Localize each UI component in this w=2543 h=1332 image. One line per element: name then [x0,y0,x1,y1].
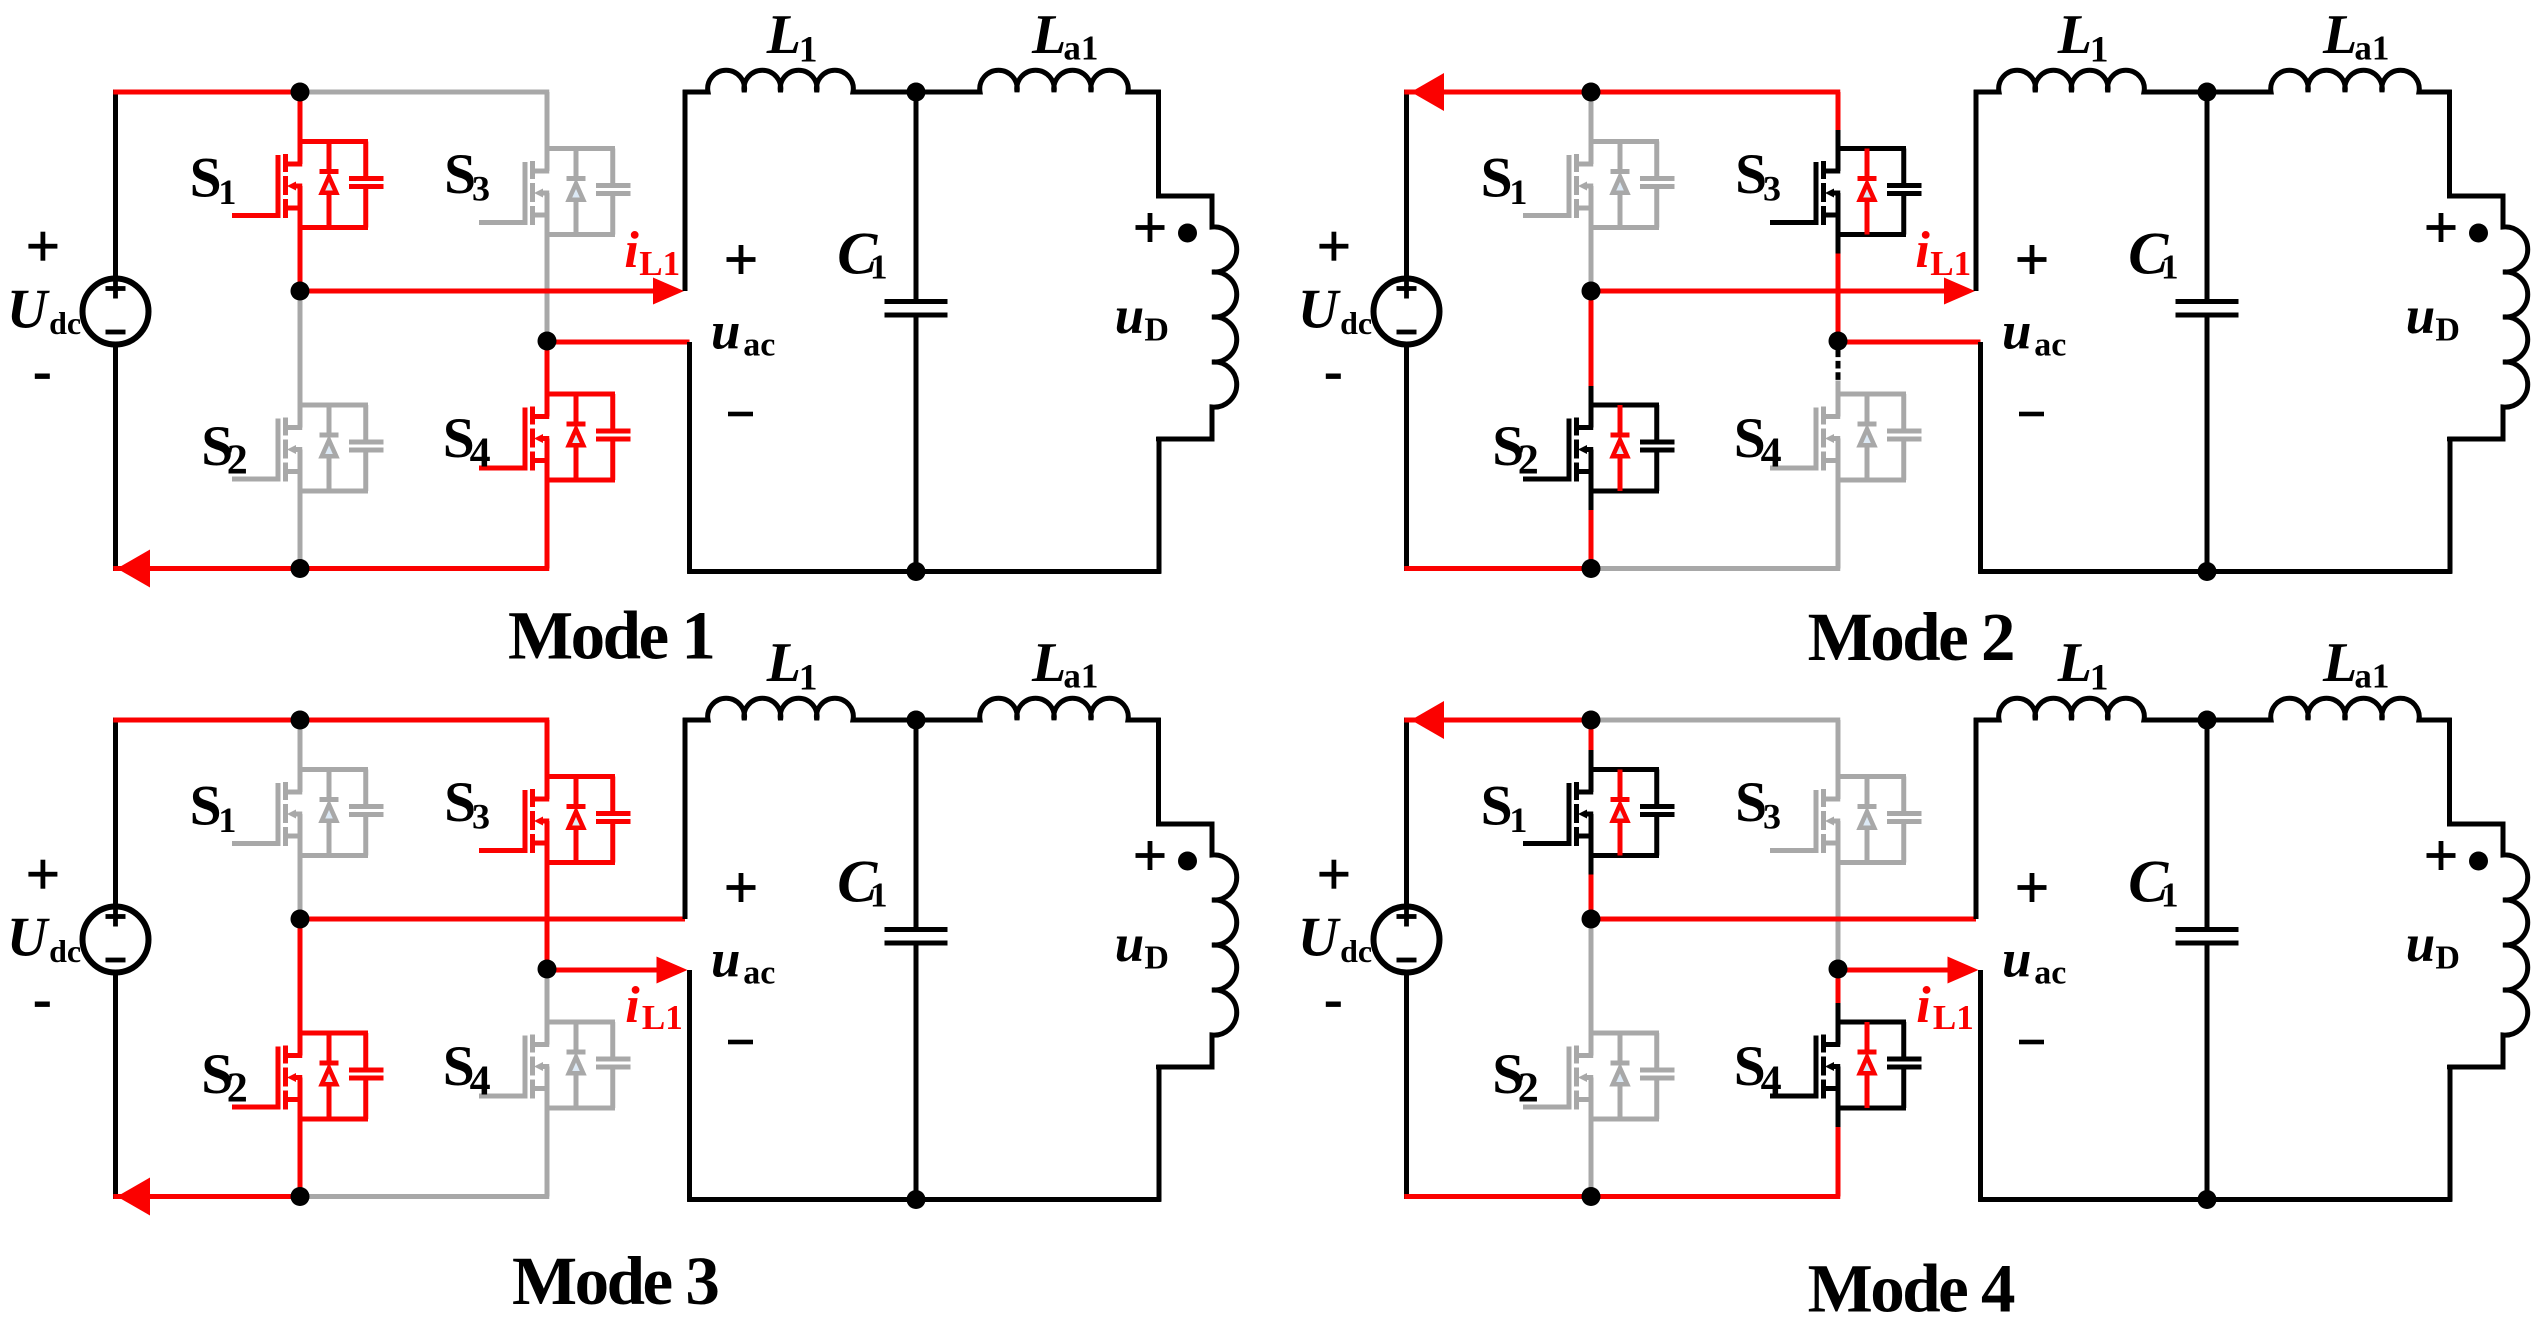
body diode of S2 (Mode 3) [320,1033,339,1119]
wire S2 source to bottom rail (Mode 2) [1589,491,1594,569]
label + of uac (Mode 3) [727,873,756,902]
inductor La1 (Mode 1) [916,70,1161,92]
svg-text:1: 1 [218,172,236,212]
voltage source Udc (Mode 1) [83,279,149,345]
voltage source Udc (Mode 3) [83,907,149,973]
svg-text:U: U [1298,906,1341,968]
svg-text:S: S [190,775,222,838]
wire top rail left segment (Mode 4) [1404,718,1593,723]
svg-text:i: i [1915,222,1930,279]
svg-text:2: 2 [227,1066,248,1112]
svg-text:2: 2 [1518,438,1539,484]
node filter top (Mode 3) [907,711,926,730]
wire S1 drain from top rail (Mode 2) [1589,92,1594,142]
svg-text:ac: ac [2034,955,2066,992]
wire output loop upper-left vertical (Mode 4) [1974,718,1979,919]
wire S3 drain from top rail (Mode 1) [545,92,550,149]
label - of uac (Mode 3) [728,1040,753,1045]
svg-text:3: 3 [472,797,490,837]
inductor L1 (Mode 1) [683,70,916,92]
node bridge midpoint (Mode 4) [1582,910,1601,929]
wire S2 source to bottom rail (Mode 3) [298,1119,303,1197]
label + of uac (Mode 4) [2018,873,2047,902]
label S3 (Mode 3) [444,771,490,837]
label L1 (Mode 1) [766,4,818,70]
label iL1 (Mode 2) [1915,222,1971,283]
wire right node to uac- terminal (Mode 1) [545,340,690,345]
label S2 (Mode 1) [201,415,248,484]
wire S3 source to right node (Mode 1) [545,235,550,342]
capacitor C1 (Mode 1) [885,92,948,572]
label + of Udc (Mode 2) [1319,232,1348,261]
label C1 (Mode 1) [837,220,887,286]
wire DC source top lead (Mode 3) [113,718,118,906]
label - of uac (Mode 2) [2019,412,2044,417]
svg-text:a1: a1 [2354,657,2389,696]
svg-text:L1: L1 [642,998,683,1037]
label + of uac (Mode 2) [2018,245,2047,274]
svg-text:L: L [1031,4,1066,66]
wire S3 source to right node (Mode 2) [1836,235,1841,342]
svg-text:u: u [711,930,740,988]
body diode of S4 (Mode 1) [567,394,586,480]
node right leg midpoint (Mode 4) [1829,960,1848,979]
label + of uac (Mode 1) [727,245,756,274]
label S4 (Mode 2) [1734,407,1782,476]
svg-text:L1: L1 [639,244,680,283]
label S3 (Mode 4) [1735,771,1781,837]
wire S1 source to midpoint node (Mode 1) [298,228,303,292]
winding uD (Mode 1) [1159,90,1237,574]
label uD (Mode 4) [2406,915,2460,977]
label S2 (Mode 2) [1492,415,1539,484]
wire right node to S4 drain (Mode 4) [1836,969,1841,1022]
wire midpoint to S2 drain (Mode 2) [1589,291,1594,405]
wire top rail left segment (Mode 1) [113,90,302,95]
label - of Udc (Mode 1) [35,374,50,379]
transistor S1 (Mode 2) [1523,142,1675,228]
node top rail / S1 drain (Mode 3) [291,711,310,730]
label L1 (Mode 2) [2057,4,2109,70]
label + of Udc (Mode 1) [28,232,57,261]
svg-text:U: U [1298,278,1341,340]
wire DC source bottom lead (Mode 1) [113,346,118,571]
body diode of S2 (Mode 2) [1611,405,1630,491]
wire S2 source to bottom rail (Mode 1) [298,491,303,569]
node bridge midpoint (Mode 3) [291,910,310,929]
return current arrow into source negative (Mode 3) [117,1178,150,1216]
wire output loop lower-left vertical (Mode 4) [1978,970,1983,1202]
svg-text:2: 2 [1518,1066,1539,1112]
transistor S3 (Mode 4) [1770,777,1922,863]
body diode of S3 (Mode 4) [1858,777,1877,863]
polarity dot of winding (Mode 4) [2469,852,2488,871]
svg-text:1: 1 [799,29,818,70]
label La1 (Mode 1) [1031,4,1098,68]
label C1 (Mode 3) [837,848,887,914]
wire S2 source to bottom rail (Mode 4) [1589,1119,1594,1197]
voltage source Udc (Mode 2) [1374,279,1440,345]
wire bottom rail left segment (Mode 4) [1404,1194,1593,1199]
svg-text:u: u [1115,915,1144,973]
label - of uac (Mode 1) [728,412,753,417]
current arrow iL1 (Mode 3) [657,957,688,984]
node top rail / S1 drain (Mode 1) [291,83,310,102]
svg-text:D: D [1144,940,1169,977]
wire S3 drain from top rail (Mode 4) [1836,720,1841,777]
wire DC source bottom lead (Mode 3) [113,974,118,1199]
label S4 (Mode 3) [443,1035,491,1104]
wire DC source top lead (Mode 1) [113,90,118,278]
svg-text:3: 3 [1763,169,1781,209]
node filter top (Mode 1) [907,83,926,102]
body diode of S1 (Mode 1) [320,142,339,228]
caption Mode 3 [512,1243,718,1319]
body diode of S2 (Mode 4) [1611,1033,1630,1119]
voltage source Udc (Mode 4) [1374,907,1440,973]
wire output loop lower-left vertical (Mode 1) [687,342,692,574]
node filter bottom (Mode 3) [907,1190,926,1209]
wire top rail right segment (Mode 1) [298,90,550,95]
label uD (Mode 1) [1115,287,1169,349]
svg-text:L: L [2057,632,2092,694]
wire output loop upper-left vertical (Mode 2) [1974,90,1979,291]
svg-text:L1: L1 [1933,998,1974,1037]
label uD (Mode 2) [2406,287,2460,349]
inductor La1 (Mode 4) [2207,698,2452,720]
node bottom rail / S2 source (Mode 2) [1582,559,1601,578]
svg-text:L: L [2057,4,2092,66]
label La1 (Mode 4) [2322,632,2389,696]
winding uD (Mode 2) [2450,90,2528,574]
caption Mode 1 [508,598,713,674]
body diode of S1 (Mode 3) [320,770,339,856]
body diode of S1 (Mode 2) [1611,142,1630,228]
return current arrow into source positive (Mode 2) [1411,73,1444,111]
wire output loop bottom rail (Mode 2) [1978,569,2452,574]
label - of uD (Mode 3) [1156,1065,1180,1070]
wire bridge midpoint to uac+ terminal (Mode 3) [298,917,685,922]
label Udc (Mode 1) [7,278,81,341]
svg-text:4: 4 [470,1059,491,1105]
svg-text:1: 1 [218,800,236,840]
transistor S4 (Mode 2) [1770,394,1922,480]
wire midpoint to S2 drain (Mode 1) [298,291,303,405]
wire output loop upper-left vertical (Mode 3) [683,718,688,919]
svg-text:i: i [624,222,639,279]
wire bottom rail right segment (Mode 1) [298,566,550,571]
label + of uD (Mode 3) [1136,841,1165,870]
svg-text:1: 1 [870,876,888,915]
wire output loop upper-left vertical (Mode 1) [683,90,688,291]
svg-text:dc: dc [1340,305,1372,341]
node filter bottom (Mode 4) [2198,1190,2217,1209]
svg-text:L: L [1031,632,1066,694]
svg-text:Mode 1: Mode 1 [508,598,713,674]
label - of Udc (Mode 4) [1326,1002,1341,1007]
svg-text:u: u [2406,287,2435,345]
label + of Udc (Mode 3) [28,860,57,889]
transistor S3 (Mode 1) [479,149,631,235]
wire bottom rail right segment (Mode 4) [1589,1194,1841,1199]
label S4 (Mode 1) [443,407,491,476]
label uac (Mode 1) [711,302,775,363]
svg-text:ac: ac [743,327,775,364]
svg-text:L: L [2322,632,2357,694]
label S1 (Mode 1) [190,147,237,213]
inductor L1 (Mode 2) [1974,70,2207,92]
wire DC source bottom lead (Mode 4) [1404,974,1409,1199]
wire S1 drain from top rail (Mode 3) [298,720,303,770]
label C1 (Mode 2) [2128,220,2178,286]
current arrow iL1 (Mode 2) [1944,278,1975,305]
transistor S2 (Mode 1) [232,405,384,491]
svg-text:L: L [766,632,801,694]
wire S1 source to midpoint node (Mode 4) [1589,856,1594,920]
polarity dot of winding (Mode 2) [2469,224,2488,243]
wire DC source bottom lead (Mode 2) [1404,346,1409,571]
current arrow iL1 (Mode 4) [1948,957,1979,984]
inductor La1 (Mode 3) [916,698,1161,720]
return current arrow into source negative (Mode 1) [117,550,150,588]
label L1 (Mode 4) [2057,632,2109,698]
node bridge midpoint (Mode 1) [291,282,310,301]
node bridge midpoint (Mode 2) [1582,282,1601,301]
wire S4 source to bottom rail (Mode 4) [1836,1108,1841,1197]
inductor La1 (Mode 2) [2207,70,2452,92]
label + of uD (Mode 4) [2427,841,2456,870]
wire right node to S4 drain (Mode 3) [545,969,550,1022]
svg-text:4: 4 [470,431,491,477]
caption Mode 2 [1808,599,2013,675]
label + of uD (Mode 2) [2427,213,2456,242]
body diode of S3 (Mode 2) [1858,149,1877,235]
svg-text:1: 1 [870,248,888,287]
wire right node to uac- terminal (Mode 4) [1836,968,1955,973]
wire bridge midpoint to uac+ terminal (Mode 2) [1589,289,1950,294]
current arrow iL1 (Mode 1) [653,278,684,305]
label iL1 (Mode 3) [625,977,682,1037]
wire right node to uac- terminal (Mode 2) [1836,340,1981,345]
wire output loop lower-left vertical (Mode 3) [687,970,692,1202]
label La1 (Mode 3) [1031,632,1098,696]
node filter top (Mode 4) [2198,711,2217,730]
svg-text:i: i [625,977,640,1034]
label + of uD (Mode 1) [1136,213,1165,242]
svg-text:ac: ac [2034,327,2066,364]
svg-text:S: S [190,147,222,210]
body diode of S4 (Mode 4) [1858,1022,1877,1108]
polarity dot of winding (Mode 3) [1178,852,1197,871]
svg-text:D: D [1144,312,1169,349]
label - of uD (Mode 1) [1156,437,1180,442]
label S1 (Mode 3) [190,775,237,841]
body diode of S4 (Mode 3) [567,1022,586,1108]
svg-text:U: U [7,278,50,340]
winding uD (Mode 3) [1159,718,1237,1202]
wire S4 source to bottom rail (Mode 3) [545,1108,550,1197]
wire DC source top lead (Mode 2) [1404,90,1409,278]
svg-text:i: i [1916,977,1931,1034]
inductor L1 (Mode 4) [1974,698,2207,720]
capacitor C1 (Mode 4) [2176,720,2239,1200]
label C1 (Mode 4) [2128,848,2178,914]
wire midpoint to S2 drain (Mode 4) [1589,919,1594,1033]
wire S3 source to right node (Mode 4) [1836,863,1841,970]
node bottom rail / S2 source (Mode 3) [291,1187,310,1206]
winding uD (Mode 4) [2450,718,2528,1202]
svg-text:u: u [711,302,740,360]
wire S3 drain from top rail (Mode 2) [1836,92,1841,149]
svg-text:1: 1 [2090,29,2109,70]
svg-text:dc: dc [49,933,81,969]
svg-text:4: 4 [1761,431,1782,477]
return current arrow into source positive (Mode 4) [1411,701,1444,739]
label S2 (Mode 4) [1492,1043,1539,1112]
label iL1 (Mode 1) [624,222,680,283]
body diode of S2 (Mode 1) [320,405,339,491]
wire S1 source to midpoint node (Mode 3) [298,856,303,920]
svg-text:3: 3 [1763,797,1781,837]
node bottom rail / S2 source (Mode 1) [291,559,310,578]
node right leg midpoint (Mode 2) [1829,332,1848,351]
svg-text:dc: dc [49,305,81,341]
wire output loop bottom rail (Mode 4) [1978,1197,2452,1202]
transistor S3 (Mode 2) [1770,149,1922,235]
label Udc (Mode 4) [1298,906,1372,969]
caption Mode 4 [1808,1251,2015,1327]
label - of Udc (Mode 3) [35,1002,50,1007]
label S1 (Mode 2) [1481,147,1528,213]
label S1 (Mode 4) [1481,775,1528,841]
wire bottom rail left segment (Mode 2) [1404,566,1593,571]
label uac (Mode 4) [2002,930,2066,991]
node top rail / S1 drain (Mode 2) [1582,83,1601,102]
wire midpoint to S2 drain (Mode 3) [298,919,303,1033]
svg-text:S: S [1481,775,1513,838]
svg-text:Mode 4: Mode 4 [1808,1251,2015,1327]
svg-text:u: u [2002,930,2031,988]
wire bottom rail left segment (Mode 1) [113,566,302,571]
wire S4 source to bottom rail (Mode 1) [545,480,550,569]
wire bridge midpoint to uac+ terminal (Mode 4) [1589,917,1976,922]
wire output loop bottom rail (Mode 1) [687,569,1161,574]
wire top rail right segment (Mode 2) [1589,90,1841,95]
wire bottom rail right segment (Mode 3) [298,1194,550,1199]
svg-text:D: D [2435,940,2460,977]
capacitor C1 (Mode 3) [885,720,948,1200]
label uac (Mode 3) [711,930,775,991]
svg-text:S: S [1481,147,1513,210]
svg-text:dc: dc [1340,933,1372,969]
svg-text:U: U [7,906,50,968]
svg-text:u: u [2406,915,2435,973]
svg-text:1: 1 [1509,172,1527,212]
transistor S1 (Mode 4) [1523,770,1675,856]
wire right node to S4 drain (Mode 1) [545,341,550,394]
svg-text:a1: a1 [2354,29,2389,68]
wire top rail right segment (Mode 4) [1589,718,1841,723]
svg-text:D: D [2435,312,2460,349]
wire bottom rail right segment (Mode 2) [1589,566,1841,571]
wire right node to S4 drain, dashed (Mode 2) [1836,350,1841,395]
node right leg midpoint (Mode 3) [538,960,557,979]
label Udc (Mode 3) [7,906,81,969]
svg-text:3: 3 [472,169,490,209]
svg-text:2: 2 [227,438,248,484]
svg-text:L: L [2322,4,2357,66]
label S3 (Mode 2) [1735,143,1781,209]
label + of Udc (Mode 4) [1319,860,1348,889]
node filter top (Mode 2) [2198,83,2217,102]
body diode of S3 (Mode 3) [567,777,586,863]
label Udc (Mode 2) [1298,278,1372,341]
transistor S4 (Mode 3) [479,1022,631,1108]
body diode of S4 (Mode 2) [1858,394,1877,480]
node filter bottom (Mode 2) [2198,562,2217,581]
label L1 (Mode 3) [766,632,818,698]
transistor S2 (Mode 3) [232,1033,384,1119]
wire output loop bottom rail (Mode 3) [687,1197,1161,1202]
transistor S2 (Mode 4) [1523,1033,1675,1119]
wire output loop lower-left vertical (Mode 2) [1978,342,1983,574]
polarity dot of winding (Mode 1) [1178,224,1197,243]
label - of Udc (Mode 2) [1326,374,1341,379]
inductor L1 (Mode 3) [683,698,916,720]
label - of uD (Mode 2) [2447,437,2471,442]
svg-text:a1: a1 [1063,29,1098,68]
svg-text:1: 1 [2090,657,2109,698]
wire top rail right segment (Mode 3) [298,718,550,723]
wire bridge midpoint to uac+ terminal (Mode 1) [298,289,659,294]
svg-text:L1: L1 [1930,244,1971,283]
svg-text:Mode 3: Mode 3 [512,1243,718,1319]
node right leg midpoint (Mode 1) [538,332,557,351]
svg-text:u: u [2002,302,2031,360]
wire S1 drain from top rail (Mode 1) [298,92,303,142]
label iL1 (Mode 4) [1916,977,1973,1037]
transistor S2 (Mode 2) [1523,405,1675,491]
node filter bottom (Mode 1) [907,562,926,581]
wire top rail left segment (Mode 3) [113,718,302,723]
transistor S1 (Mode 1) [232,142,384,228]
transistor S4 (Mode 4) [1770,1022,1922,1108]
svg-text:L: L [766,4,801,66]
wire bottom rail left segment (Mode 3) [113,1194,302,1199]
wire DC source top lead (Mode 4) [1404,718,1409,906]
svg-text:ac: ac [743,955,775,992]
svg-text:Mode 2: Mode 2 [1808,599,2013,675]
wire S1 drain from top rail (Mode 4) [1589,720,1594,770]
svg-text:1: 1 [799,657,818,698]
label uD (Mode 3) [1115,915,1169,977]
svg-text:4: 4 [1761,1059,1782,1105]
svg-text:a1: a1 [1063,657,1098,696]
label uac (Mode 2) [2002,302,2066,363]
body diode of S1 (Mode 4) [1611,770,1630,856]
body diode of S3 (Mode 1) [567,149,586,235]
label S2 (Mode 3) [201,1043,248,1112]
svg-text:1: 1 [1509,800,1527,840]
wire S3 drain from top rail (Mode 3) [545,720,550,777]
svg-text:1: 1 [2161,248,2179,287]
label S4 (Mode 4) [1734,1035,1782,1104]
wire right node to uac- terminal (Mode 3) [545,968,664,973]
transistor S4 (Mode 1) [479,394,631,480]
svg-text:1: 1 [2161,876,2179,915]
label La1 (Mode 2) [2322,4,2389,68]
label S3 (Mode 1) [444,143,490,209]
